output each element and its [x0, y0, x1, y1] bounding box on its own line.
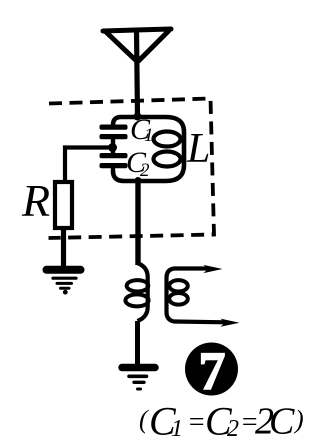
- capacitor C1: [100, 125, 128, 140]
- svg-text:R: R: [21, 175, 50, 226]
- svg-text:7: 7: [199, 341, 226, 401]
- antenna: [103, 29, 171, 61]
- junction blob at tank bottom: [135, 177, 142, 184]
- svg-text:=: =: [187, 407, 206, 438]
- tank loop wire (top,right,bottom): [113, 117, 184, 181]
- svg-text:1: 1: [171, 416, 183, 442]
- ground (left): [47, 270, 81, 295]
- dashed box: [49, 99, 215, 239]
- transformer secondary winding: [167, 269, 227, 323]
- capacitor C2: [100, 153, 128, 168]
- svg-text:C: C: [269, 401, 295, 443]
- wire below C2: [111, 168, 115, 172]
- resistor R: [55, 182, 72, 228]
- junction node: [108, 143, 117, 152]
- figure marker 7: [185, 343, 238, 396]
- svg-text:1: 1: [144, 125, 154, 146]
- svg-text:(: (: [139, 405, 149, 434]
- svg-text:): ): [293, 405, 304, 434]
- inductor L: [154, 132, 181, 167]
- svg-text:L: L: [186, 126, 210, 172]
- arrow (top output): [204, 265, 223, 273]
- tap wire to resistor: [65, 148, 110, 183]
- wire resistor to ground: [61, 228, 66, 267]
- ground (bottom): [122, 368, 155, 390]
- wire antenna to tank: [137, 30, 138, 117]
- transformer primary winding: [138, 263, 148, 321]
- arrow (bottom output): [221, 319, 240, 327]
- main wire tank to transformer: [135, 181, 140, 265]
- wire between capacitors: [111, 139, 115, 153]
- svg-text:2: 2: [227, 416, 239, 442]
- junction blob at tank top: [134, 113, 142, 121]
- svg-text:2: 2: [140, 160, 150, 181]
- wire primary to ground: [135, 321, 140, 364]
